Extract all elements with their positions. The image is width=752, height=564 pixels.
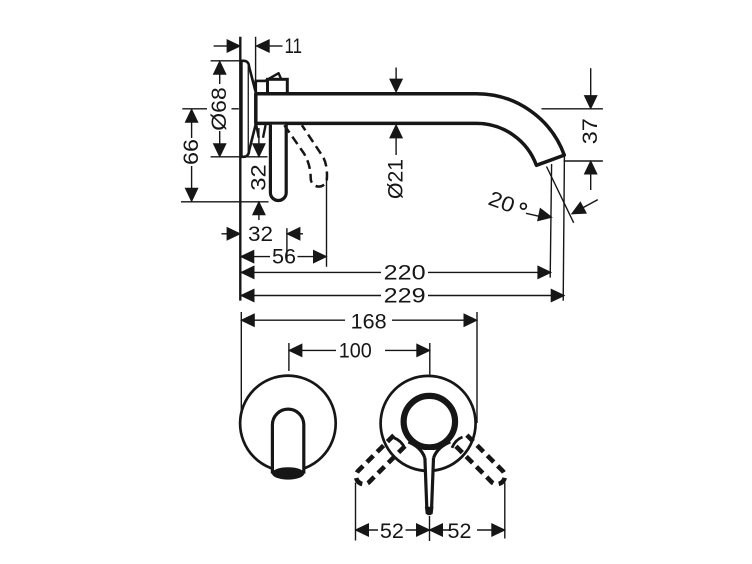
extension line handle edge <box>286 228 288 259</box>
svg-text:220: 220 <box>384 261 426 284</box>
dim O21 line bottom <box>395 138 397 155</box>
lever fillet right <box>434 442 451 458</box>
dashed lever right front <box>453 432 508 487</box>
svg-text:11: 11 <box>285 35 303 58</box>
escutcheon cone <box>249 66 256 152</box>
hub flag detail <box>266 73 282 81</box>
angle leader left <box>526 213 543 217</box>
dim 229 <box>241 295 381 297</box>
extension line outlet bottom <box>564 160 603 162</box>
dashed lever left front <box>353 432 408 487</box>
dim 11 arrow left <box>227 40 240 52</box>
dim 37 <box>590 68 592 96</box>
dim 168 <box>241 319 345 321</box>
lever body <box>425 458 427 508</box>
dim 11 arrow right <box>256 40 269 52</box>
extension line spout axis left <box>182 108 207 110</box>
escutcheon circle spout front <box>240 376 336 472</box>
water stream left line <box>550 164 551 278</box>
dim O21 line top <box>395 68 397 80</box>
lever channel fill <box>426 450 433 509</box>
dim 100 <box>289 349 336 351</box>
svg-text:Ø68: Ø68 <box>208 87 231 131</box>
svg-text:229: 229 <box>384 285 426 308</box>
handle side solid <box>270 125 286 201</box>
dim O68 line <box>219 61 221 84</box>
water stream right line <box>563 157 564 301</box>
svg-text:20: 20 <box>485 187 517 218</box>
dim O68 arrows <box>214 61 226 74</box>
spout outlet ellipse <box>272 467 304 479</box>
angle leader right <box>572 200 598 214</box>
extension lines 100 <box>288 343 290 371</box>
dim 66 arrows <box>185 109 197 122</box>
extension line handle bottom <box>181 201 269 203</box>
dashed fillet right <box>452 437 463 448</box>
extension line plate front <box>255 37 257 95</box>
extension line plate bottom <box>211 156 268 158</box>
svg-text:52: 52 <box>448 520 472 543</box>
dim O21 arrow top <box>390 79 402 92</box>
svg-text:56: 56 <box>272 246 296 269</box>
dim 220 <box>241 271 381 273</box>
lever tip <box>425 507 434 515</box>
extension line plate top <box>211 60 241 62</box>
spout tube side <box>256 94 565 166</box>
stream angle reference line <box>547 167 574 223</box>
svg-text:52: 52 <box>380 520 404 543</box>
dim 32 horizontal <box>222 233 229 235</box>
svg-text:100: 100 <box>339 339 372 362</box>
dim 56 <box>241 256 270 258</box>
extension line spout axis right <box>542 108 603 110</box>
escutcheon plate side <box>241 61 249 157</box>
svg-text:66: 66 <box>180 139 203 165</box>
svg-text:32: 32 <box>248 223 273 246</box>
dim 52 right <box>430 529 450 531</box>
dim O21 arrow bottom <box>390 125 402 138</box>
spout front <box>272 409 303 472</box>
handle knob front <box>404 396 455 447</box>
dim 11 leader left <box>214 45 228 47</box>
wall line <box>239 37 241 301</box>
lever fillet left <box>408 442 425 458</box>
escutcheon circle handle front <box>381 376 476 471</box>
svg-text:168: 168 <box>351 311 387 334</box>
extension line dashed handle tip <box>326 177 328 267</box>
handle side dashed swung <box>284 125 327 186</box>
dim 32 vertical line <box>258 128 260 144</box>
dashed fillet left <box>393 438 405 449</box>
dim 66 line <box>191 109 193 138</box>
extension lines 168 <box>240 312 242 420</box>
dim 52 left <box>356 529 379 531</box>
extension lines 52 <box>355 483 357 541</box>
degree symbol <box>521 203 527 209</box>
dim 11 leader right <box>269 45 282 47</box>
svg-text:Ø21: Ø21 <box>385 159 408 199</box>
spout hub body <box>268 79 288 94</box>
svg-text:32: 32 <box>247 164 270 191</box>
svg-text:37: 37 <box>579 118 602 144</box>
body port under tube <box>256 125 265 138</box>
spout hub step <box>256 81 268 94</box>
